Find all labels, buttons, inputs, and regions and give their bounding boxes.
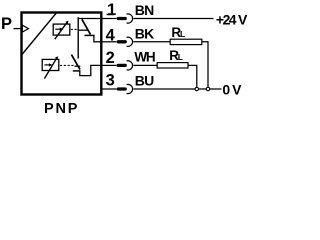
svg-text:V: V (232, 82, 242, 98)
svg-text:BN: BN (135, 2, 154, 18)
resistor RL2 (157, 63, 188, 68)
svg-text:L: L (180, 29, 185, 39)
P input arrowhead (22, 25, 28, 32)
svg-text:24: 24 (223, 12, 237, 28)
wire Q2 to pin 2 (jog) (80, 65, 102, 75)
plug contact pin 2 (118, 61, 132, 70)
label RL2 (169, 48, 183, 63)
svg-text:BK: BK (135, 26, 154, 42)
wire BU to 0V (133, 88, 221, 90)
label 0 V (222, 82, 242, 98)
S1 internal signal arrow (55, 28, 63, 31)
wire pin 1 stub (101, 18, 116, 20)
svg-text:BU: BU (135, 72, 154, 88)
internal rail to pin 1 (78, 18, 102, 20)
plug contact pin 1 (118, 14, 132, 23)
svg-text:WH: WH (134, 50, 155, 65)
resistor RL1 (170, 39, 202, 44)
sensor body box (22, 13, 102, 95)
wire P input (14, 28, 22, 30)
wire WH to RL2 (133, 64, 157, 66)
S2 internal signal arrow (44, 63, 52, 66)
dashed control line S1 to Q1 (71, 28, 78, 30)
junction node RL2/0V (195, 87, 198, 90)
label RL1 (171, 25, 185, 40)
svg-text:0: 0 (222, 82, 230, 98)
svg-text:V: V (238, 12, 248, 28)
S2 adjustability arrow (44, 56, 58, 78)
wire pin 2 stub (101, 64, 116, 66)
wire RL1 to 0V rail (202, 42, 208, 87)
wire BK to RL1 (133, 41, 170, 43)
sensing element S1 (upper adjustable box) (53, 24, 70, 35)
junction node RL1/0V (206, 87, 209, 90)
plug contact pin 3 (118, 84, 132, 93)
S1 adjustability arrow (55, 21, 69, 40)
svg-text:P: P (1, 15, 12, 33)
svg-text:3: 3 (106, 72, 115, 90)
sensing element S2 (lower adjustable box) (42, 59, 59, 70)
output stage Q1 (78, 19, 94, 42)
wire pin 4 stub (101, 41, 116, 43)
svg-text:2: 2 (106, 49, 115, 67)
svg-text:1: 1 (107, 1, 116, 19)
wire RL2 to 0V rail (188, 65, 197, 87)
output stage Q2 (71, 55, 80, 71)
plug contact pin 4 (118, 37, 132, 46)
label +24 V (216, 12, 248, 28)
sensor box diagonal divider (22, 13, 57, 55)
wire pin 3 stub (101, 88, 116, 90)
internal supply vertical (77, 17, 79, 58)
dashed control line S2 to Q2 (60, 64, 74, 66)
svg-text:PNP: PNP (44, 101, 79, 117)
wire BN to +24V (133, 18, 213, 20)
wire Q1 to pin 4 (93, 41, 101, 43)
svg-text:L: L (178, 52, 183, 62)
